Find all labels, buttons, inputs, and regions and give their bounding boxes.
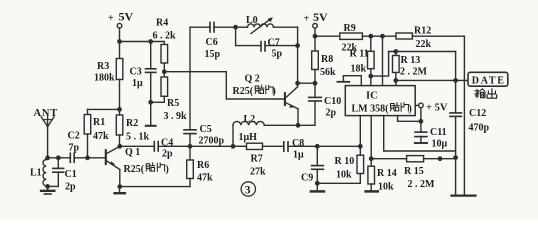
terminal bar C3 bottom	[146, 125, 156, 127]
capacitor C10	[309, 96, 322, 98]
wire tank to Q2 collector	[297, 27, 299, 86]
svg-text:R9: R9	[344, 23, 356, 34]
capacitor C5	[189, 134, 191, 147]
svg-text:R12: R12	[414, 26, 431, 37]
svg-text:Q 2: Q 2	[245, 74, 260, 85]
node R4/R5	[163, 70, 166, 73]
node R13 top	[394, 50, 397, 53]
capacitor C9	[316, 146, 318, 165]
wire collector line	[120, 145, 155, 147]
capacitor C8	[283, 142, 285, 151]
svg-text:R4: R4	[156, 18, 168, 29]
wire base line	[46, 157, 70, 159]
resistor R11	[370, 36, 372, 51]
transistor Q2	[284, 93, 286, 105]
svg-text:IC: IC	[366, 91, 378, 102]
wire antenna down	[47, 127, 49, 158]
node C3/R5	[149, 101, 152, 104]
resistor R4	[161, 45, 168, 64]
resistor R2	[116, 115, 123, 135]
wire +5V pin riser	[382, 36, 384, 85]
svg-text:C9: C9	[301, 173, 313, 184]
svg-text:R 14: R 14	[377, 168, 397, 179]
wire output line to DATE	[396, 79, 468, 81]
svg-text:C7: C7	[268, 37, 280, 48]
node +5V pin riser	[381, 35, 384, 38]
wire R3 bottom to node	[119, 80, 121, 116]
label circled 3	[241, 182, 255, 196]
transistor Q1	[105, 150, 107, 164]
wire IC pin3 across	[384, 116, 456, 151]
+5V terminal circle (left)	[117, 23, 122, 28]
svg-text:6 . 2k: 6 . 2k	[153, 31, 177, 42]
svg-text:2700p: 2700p	[199, 136, 225, 147]
svg-text:C5: C5	[200, 124, 212, 135]
svg-text:22k: 22k	[416, 39, 432, 50]
capacitor C11	[420, 108, 422, 132]
wire emitter ground line	[120, 186, 190, 188]
svg-text:10k: 10k	[336, 170, 352, 181]
node rail/C3	[149, 40, 152, 43]
svg-text:C8: C8	[292, 138, 304, 149]
wire rail A	[120, 42, 165, 45]
svg-text:5V: 5V	[313, 10, 328, 24]
svg-text:R 15: R 15	[404, 166, 424, 177]
svg-text:C1: C1	[65, 169, 77, 180]
capacitor C1	[57, 158, 59, 169]
+5V terminal circle (right)	[313, 24, 318, 29]
wire R4R5 node to Q2 base	[164, 72, 284, 99]
capacitor C4	[153, 142, 155, 152]
node rail/R3	[118, 40, 121, 43]
svg-text:470p: 470p	[469, 123, 490, 134]
svg-text:7p: 7p	[69, 143, 80, 154]
svg-text:3 . 9k: 3 . 9k	[164, 111, 188, 122]
resistor R9	[340, 33, 363, 39]
capacitor C3	[150, 42, 152, 69]
svg-text:R 10: R 10	[335, 156, 355, 167]
ground (antenna tank)	[47, 186, 49, 190]
wire R10 bottom to C9	[317, 182, 360, 184]
svg-text:L0: L0	[246, 15, 258, 26]
svg-text:LM 358(: LM 358(	[352, 104, 390, 115]
wire IC pin to R14	[370, 116, 372, 167]
wire R11 node to feedback riser	[371, 52, 389, 77]
svg-text:10μ: 10μ	[432, 139, 448, 150]
capacitor C12	[450, 112, 461, 114]
svg-text:15p: 15p	[205, 49, 221, 60]
svg-text:2p: 2p	[326, 108, 337, 119]
wire tank top line	[190, 26, 210, 28]
svg-text:C6: C6	[206, 37, 218, 48]
svg-text:R2: R2	[126, 118, 138, 129]
svg-text:3: 3	[245, 185, 251, 197]
svg-text:L2: L2	[244, 114, 256, 125]
wire feedback top line	[389, 51, 456, 53]
svg-text:R 11: R 11	[350, 49, 369, 60]
svg-text:C2: C2	[68, 131, 80, 142]
inductor L1	[43, 160, 46, 186]
wire L2 to Q2 emitter	[264, 124, 314, 126]
svg-text:+ 5V: + 5V	[426, 103, 448, 114]
svg-text:2 . 2M: 2 . 2M	[408, 179, 436, 190]
svg-text:1μ: 1μ	[293, 150, 304, 161]
resistor R12	[396, 33, 412, 39]
capacitor C2	[69, 153, 71, 162]
svg-text:56k: 56k	[320, 67, 336, 78]
antenna symbol	[41, 117, 47, 127]
node Q2 emitter	[296, 124, 299, 127]
wire rail B right end down	[412, 36, 464, 195]
svg-text:+: +	[304, 14, 310, 25]
svg-text:C11: C11	[430, 127, 447, 138]
arrow through L0	[251, 19, 271, 34]
svg-text:18k: 18k	[351, 64, 367, 75]
svg-text:+: +	[108, 13, 114, 24]
node C5/R6	[188, 145, 191, 148]
wire L1/C1 bottom	[46, 185, 58, 187]
resistor R15	[407, 156, 424, 162]
resistor R13	[395, 52, 397, 56]
inductor L0 (variable)	[236, 26, 248, 28]
node tank left	[234, 26, 237, 29]
capacitor C7	[235, 27, 237, 45]
svg-text:180k: 180k	[94, 73, 115, 84]
node C9/R10 line	[316, 145, 319, 148]
terminal bar bottom right	[452, 195, 476, 197]
svg-text:5 . 1k: 5 . 1k	[126, 132, 150, 143]
wire +5V down to rail A	[119, 28, 121, 42]
wire link to R1	[88, 108, 120, 110]
resistor R1	[87, 109, 89, 114]
node R3/R1/R2	[118, 108, 121, 111]
svg-text:R25(: R25(	[124, 164, 145, 175]
svg-text:R 13: R 13	[401, 55, 421, 66]
svg-text:R3: R3	[97, 61, 109, 72]
wire C12 / feedback vertical	[455, 52, 457, 113]
svg-text:5p: 5p	[272, 49, 283, 60]
svg-text:R25(: R25(	[233, 86, 254, 97]
DATE output box	[468, 72, 508, 86]
wire IC pin stub (left, with bar)	[343, 76, 361, 86]
wire IC pin to input line / R10	[359, 116, 361, 156]
svg-text:C12: C12	[469, 108, 486, 119]
node +5V rail B	[313, 35, 316, 38]
capacitor C6	[209, 22, 211, 32]
svg-text:2p: 2p	[162, 149, 173, 160]
ground (Q1 emitter)	[119, 187, 121, 193]
svg-text:DATE: DATE	[472, 75, 506, 86]
svg-text:R8: R8	[321, 54, 333, 65]
svg-text:R5: R5	[167, 98, 179, 109]
svg-text:R1: R1	[93, 117, 105, 128]
resistor R3	[119, 42, 121, 59]
svg-text:47k: 47k	[93, 131, 109, 142]
wire collector to R8/C10 column	[298, 82, 315, 84]
ground (R14)	[366, 190, 378, 193]
label output (Chinese)	[475, 89, 485, 98]
svg-text:10k: 10k	[378, 182, 394, 193]
node R1 bottom	[86, 156, 89, 159]
svg-text:2 . 2M: 2 . 2M	[400, 67, 428, 78]
wire IC pin to +5V/C11	[398, 116, 421, 122]
svg-text:L1: L1	[30, 168, 42, 179]
op-amp IC U1 LM358	[345, 86, 415, 116]
node Q1 collector / R2	[118, 145, 121, 148]
node tank right	[296, 44, 299, 47]
resistor R10	[357, 155, 364, 173]
node output/C12	[454, 79, 457, 82]
node ANT/L1/C1	[46, 156, 49, 159]
resistor R6	[189, 146, 191, 160]
node R11 bottom	[369, 74, 372, 77]
svg-text:C10: C10	[324, 96, 341, 107]
svg-text:R6: R6	[197, 160, 209, 171]
wire R15 line	[371, 158, 406, 160]
ANT label	[34, 108, 59, 119]
svg-text:5V: 5V	[119, 10, 134, 24]
svg-text:47k: 47k	[197, 173, 213, 184]
pin 8 +5V circle	[415, 104, 418, 106]
inductor L2	[232, 125, 234, 146]
resistor R5	[161, 77, 168, 96]
svg-text:C3: C3	[130, 67, 142, 78]
resistor R7	[247, 143, 263, 149]
svg-text:1μ: 1μ	[132, 78, 143, 89]
node Q2 collector / R8	[296, 82, 299, 85]
+5V supply (right) label	[304, 10, 329, 25]
svg-text:27k: 27k	[250, 167, 266, 178]
node L2 tap	[231, 145, 234, 148]
svg-text:R7: R7	[251, 154, 263, 165]
svg-text:Q 1: Q 1	[125, 147, 140, 158]
svg-text:): )	[409, 104, 412, 115]
wire rail B	[315, 35, 340, 37]
svg-text:1μH: 1μH	[239, 132, 258, 143]
svg-text:2p: 2p	[65, 182, 76, 193]
node C1 top	[57, 156, 60, 159]
node R13 bottom / output	[394, 79, 397, 82]
ground (C9)	[311, 190, 324, 193]
resistor R8	[312, 51, 319, 70]
svg-text:): )	[166, 164, 169, 175]
resistor R14	[368, 166, 375, 184]
+5V supply (left) label	[108, 10, 134, 25]
node R11 top	[369, 35, 372, 38]
